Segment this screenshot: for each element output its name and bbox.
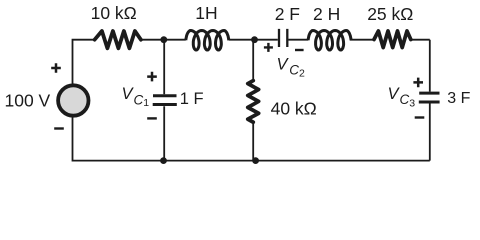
svg-text:V: V <box>277 56 290 74</box>
svg-text:10 kΩ: 10 kΩ <box>91 3 137 23</box>
svg-text:1: 1 <box>143 97 149 109</box>
svg-text:1H: 1H <box>195 3 217 23</box>
svg-text:100 V: 100 V <box>5 91 51 111</box>
svg-text:2: 2 <box>299 68 305 80</box>
svg-text:2 F: 2 F <box>275 4 300 24</box>
svg-text:3 F: 3 F <box>447 90 470 107</box>
svg-text:C: C <box>289 63 299 78</box>
svg-text:25 kΩ: 25 kΩ <box>367 4 413 24</box>
svg-text:3: 3 <box>409 98 415 110</box>
svg-text:C: C <box>134 92 144 107</box>
svg-text:1 F: 1 F <box>180 90 204 108</box>
svg-text:C: C <box>400 92 410 107</box>
svg-text:40 kΩ: 40 kΩ <box>271 99 317 119</box>
svg-text:2 H: 2 H <box>313 4 340 24</box>
